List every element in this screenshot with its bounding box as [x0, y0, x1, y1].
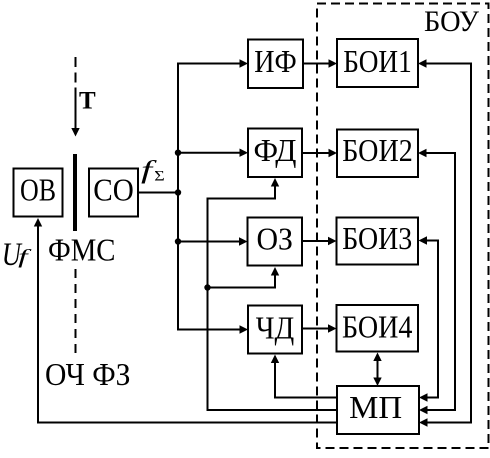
svg-text:Σ: Σ	[154, 167, 164, 184]
junction dot OZ branch	[175, 238, 181, 244]
svg-text:ФД: ФД	[254, 132, 297, 168]
svg-text:СО: СО	[93, 172, 134, 208]
wire MP-BOI1 bidirectional	[418, 59, 471, 426]
junction dot f-sigma	[175, 189, 181, 195]
svg-text:БОИ2: БОИ2	[342, 132, 413, 168]
svg-text:БОИ3: БОИ3	[342, 220, 412, 256]
wire FD to BOI2 with arrow	[302, 149, 337, 157]
wire MP to ChD with arrow	[271, 355, 337, 398]
block FD	[248, 129, 302, 178]
junction dot FD branch	[175, 150, 181, 156]
svg-text:МП: МП	[349, 389, 402, 425]
block OV	[14, 169, 63, 217]
FMS thick bar	[73, 154, 77, 231]
wire IF to BOI1 with arrow	[303, 59, 337, 67]
label f-sigma	[141, 157, 158, 185]
label Uf	[2, 236, 23, 272]
junction dot OZ feed branch	[204, 284, 210, 290]
wire ChD to BOI4 with arrow	[302, 324, 337, 332]
block ChD	[248, 306, 302, 354]
wire trunk to IF with arrow	[177, 59, 248, 67]
svg-text:ЧД: ЧД	[256, 310, 295, 346]
wire trunk to FD with arrow	[177, 149, 248, 157]
svg-text:ИФ: ИФ	[254, 43, 297, 79]
block OZ	[248, 218, 303, 266]
wire MP-BOI3 bidirectional	[419, 236, 439, 401]
input axis T dashed	[75, 57, 77, 83]
wire trunk vertical	[177, 63, 179, 331]
dashed enclosure BOU	[317, 4, 489, 449]
wire OZ to BOI3 with arrow	[302, 237, 337, 245]
block MP	[337, 386, 419, 434]
svg-text:ФМС: ФМС	[48, 232, 116, 268]
svg-text:БОИ4: БОИ4	[342, 308, 413, 344]
block BOI3	[337, 218, 419, 265]
wire MP to OV (Uf feedback) with arrow	[34, 218, 337, 423]
wire branch to OZ bottom with arrow	[208, 267, 280, 288]
block BOI2	[337, 130, 418, 178]
svg-text:Т: Т	[79, 88, 96, 115]
svg-text:ОВ: ОВ	[20, 172, 56, 208]
block IF	[248, 40, 303, 89]
wire trunk to ChD with arrow	[177, 325, 248, 333]
wire f-sigma from SO to trunk	[138, 192, 178, 194]
lower dashed axis OCh FZ	[75, 269, 77, 354]
svg-text:БОУ: БОУ	[424, 5, 480, 38]
wire MP to FD with arrow	[208, 178, 338, 410]
block BOI4	[337, 305, 419, 352]
input arrow T	[71, 88, 79, 137]
svg-text:ОЧ ФЗ: ОЧ ФЗ	[45, 356, 131, 392]
wire MP-BOI4 double arrow	[373, 353, 381, 387]
block BOI1	[337, 39, 418, 87]
svg-text:ОЗ: ОЗ	[256, 221, 293, 257]
svg-text:БОИ1: БОИ1	[343, 43, 412, 79]
wire trunk to OZ with arrow	[177, 237, 248, 245]
wire MP-BOI2 bidirectional	[418, 149, 455, 414]
block SO	[89, 169, 138, 217]
